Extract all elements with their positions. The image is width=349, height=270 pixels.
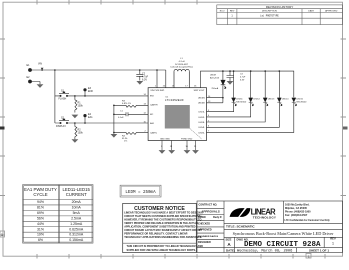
svg-text:CHECKED: CHECKED — [198, 222, 210, 225]
svg-text:DESCRIPTION: DESCRIPTION — [262, 11, 277, 13]
svg-text:ECO: ECO — [220, 11, 225, 13]
svg-text:DATE:: DATE: — [226, 248, 235, 252]
svg-text:0.156mA: 0.156mA — [69, 238, 84, 242]
svg-text:LED12: LED12 — [253, 99, 260, 101]
svg-text:56%: 56% — [37, 216, 44, 220]
svg-text:0.1uF: 0.1uF — [118, 117, 124, 119]
svg-text:19%: 19% — [37, 233, 44, 237]
svg-text:100k: 100k — [78, 105, 84, 108]
svg-text:Synchronous Buck-Boost Main/Ca: Synchronous Buck-Boost Main/Camera White… — [233, 231, 334, 236]
svg-text:69%: 69% — [37, 211, 44, 215]
svg-text:GND GND: GND GND — [160, 139, 170, 141]
svg-text:DO3314-4R7: DO3314-4R7 — [175, 64, 189, 66]
svg-text:LED3L: LED3L — [198, 122, 205, 124]
svg-text:CYCLE: CYCLE — [33, 192, 47, 197]
svg-text:6%: 6% — [38, 238, 43, 242]
svg-text:44%: 44% — [37, 222, 44, 226]
svg-text:6.3V: 6.3V — [240, 80, 245, 82]
svg-text:CONTRACT NO.: CONTRACT NO. — [199, 203, 218, 206]
svg-text:MC: MC — [150, 114, 154, 116]
svg-text:LEDM2: LEDM2 — [198, 103, 206, 105]
svg-text:DRWN: DRWN — [198, 216, 206, 219]
svg-text:CAMTL: CAMTL — [150, 131, 158, 134]
svg-text:LED13: LED13 — [268, 99, 275, 101]
svg-text:31%: 31% — [37, 227, 44, 231]
svg-text:LTC Confidential-For Customer: LTC Confidential-For Customer Use Only — [285, 219, 331, 222]
svg-text:(a) PROTOTYPE: (a) PROTOTYPE — [260, 14, 279, 17]
svg-text:NSCW100: NSCW100 — [297, 101, 308, 103]
svg-text:LED1L: LED1L — [198, 112, 205, 114]
svg-text:100k: 100k — [78, 132, 84, 135]
svg-text:EN#: EN# — [88, 90, 93, 93]
svg-text:Coilcraft (Coupled Res): Coilcraft (Coupled Res) — [170, 66, 193, 69]
svg-text:4.7uF: 4.7uF — [240, 77, 246, 79]
svg-text:LED11: LED11 — [236, 99, 243, 101]
svg-text:REV: REV — [330, 236, 336, 240]
svg-text:TITLE: SCHEMATIC: TITLE: SCHEMATIC — [226, 224, 255, 228]
svg-text:LED15: LED15 — [297, 99, 304, 101]
svg-text:VIN: VIN — [38, 63, 42, 66]
svg-text:APPROVED: APPROVED — [325, 10, 338, 13]
svg-text:250mA: 250mA — [212, 87, 219, 90]
svg-text:LED5L: LED5L — [198, 132, 205, 134]
svg-text:CURRENT: CURRENT — [66, 192, 87, 197]
svg-text:2.5mA: 2.5mA — [71, 216, 82, 220]
svg-text:4.7uH: 4.7uH — [179, 61, 185, 63]
svg-text:TECHNOLOGY: TECHNOLOGY — [253, 215, 277, 219]
svg-text:LED4L: LED4L — [198, 127, 205, 129]
svg-text:LEDM1: LEDM1 — [198, 98, 206, 100]
svg-text:APPROVALS: APPROVALS — [201, 209, 219, 213]
svg-text:VIN PVIN SW1: VIN PVIN SW1 — [150, 90, 165, 92]
svg-text:LEDM = 250mA: LEDM = 250mA — [125, 191, 156, 195]
svg-text:EA1: EA1 — [88, 116, 93, 119]
svg-text:THIS CIRCUIT IS PROPRIETARY TO: THIS CIRCUIT IS PROPRIETARY TO LINEAR TE… — [127, 245, 204, 248]
svg-text:1.25mA: 1.25mA — [70, 222, 83, 226]
svg-text:SHEET 1 OF 1: SHEET 1 OF 1 — [309, 248, 329, 252]
svg-text:A19-2013: A19-2013 — [210, 77, 220, 80]
svg-text:Rudy R: Rudy R — [213, 216, 222, 219]
svg-text:REVISION HISTORY: REVISION HISTORY — [266, 5, 293, 9]
svg-text:DISPLAY: DISPLAY — [56, 125, 66, 128]
svg-text:0.625mA: 0.625mA — [69, 227, 84, 231]
svg-text:1%: 1% — [124, 141, 127, 143]
svg-text:SW2 VOUT: SW2 VOUT — [194, 90, 206, 92]
svg-text:SUPPLIED FOR USE WITH LINEAR T: SUPPLIED FOR USE WITH LINEAR TECHNOLOGY … — [127, 249, 197, 252]
svg-text:5mA: 5mA — [73, 211, 81, 215]
svg-text:LED2L: LED2L — [198, 117, 205, 119]
svg-text:Fax: (408)434-0507: Fax: (408)434-0507 — [285, 214, 308, 217]
svg-text:0.312mA: 0.312mA — [69, 233, 84, 237]
svg-text:APPROVED: APPROVED — [198, 229, 212, 232]
svg-text:DESIGNER: DESIGNER — [198, 241, 211, 244]
svg-text:LEDM: LEDM — [210, 75, 216, 77]
svg-text:LTC3452EUF: LTC3452EUF — [165, 98, 184, 102]
svg-text:LED14: LED14 — [282, 99, 289, 101]
svg-text:20mA: 20mA — [72, 200, 82, 204]
svg-text:TECHNOLOGY APPLICATIONS ENGINE: TECHNOLOGY APPLICATIONS ENGINEERING FOR … — [124, 236, 202, 239]
svg-text:1: 1 — [1, 233, 3, 237]
svg-text:10mA: 10mA — [72, 205, 82, 209]
svg-text:81%: 81% — [37, 205, 44, 209]
svg-text:FLASH: FLASH — [59, 98, 67, 101]
svg-text:Wednesday, March 08, 2006: Wednesday, March 08, 2006 — [237, 248, 292, 253]
svg-text:ENGINEER DAVE B: ENGINEER DAVE B — [198, 235, 219, 238]
svg-text:94%: 94% — [37, 200, 44, 204]
svg-text:6.3V: 6.3V — [142, 79, 147, 82]
svg-text:REV: REV — [230, 11, 235, 13]
svg-text:NSCW100: NSCW100 — [236, 101, 247, 103]
svg-text:DATE: DATE — [308, 10, 314, 13]
svg-text:CAMTH: CAMTH — [150, 104, 158, 107]
svg-text:1: 1 — [332, 241, 334, 245]
svg-text:PGND GND: PGND GND — [181, 139, 193, 141]
svg-text:6.87k 1%: 6.87k 1% — [122, 103, 131, 105]
